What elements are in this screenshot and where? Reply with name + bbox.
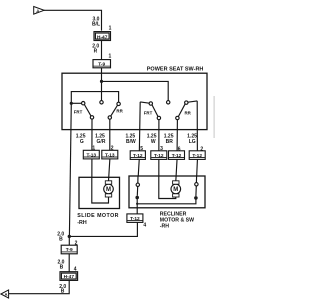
svg-text:FRT: FRT	[74, 109, 83, 114]
svg-text:2: 2	[111, 145, 114, 151]
svg-text:T-12: T-12	[130, 216, 140, 222]
svg-text:R: R	[94, 49, 98, 55]
svg-text:B: B	[60, 264, 64, 270]
svg-text:H-47: H-47	[97, 34, 108, 40]
svg-text:4: 4	[143, 223, 146, 229]
svg-text:1: 1	[109, 26, 112, 32]
svg-text:-RH: -RH	[160, 224, 169, 230]
svg-text:T-13: T-13	[105, 153, 115, 159]
svg-text:SLIDE MOTOR: SLIDE MOTOR	[77, 213, 119, 219]
svg-text:RR: RR	[185, 111, 192, 116]
svg-text:B/L: B/L	[92, 22, 100, 28]
svg-text:2: 2	[75, 241, 78, 247]
svg-text:LG: LG	[189, 139, 196, 145]
svg-text:T-12: T-12	[192, 153, 202, 159]
svg-text:2: 2	[200, 146, 203, 152]
svg-text:5: 5	[140, 146, 143, 152]
svg-text:T-12: T-12	[133, 153, 143, 159]
svg-text:M: M	[173, 187, 178, 193]
svg-text:H-47: H-47	[64, 274, 75, 280]
svg-text:A: A	[4, 292, 7, 297]
svg-text:T-12: T-12	[154, 153, 164, 159]
svg-text:T-12: T-12	[172, 153, 182, 159]
svg-text:FRT: FRT	[144, 110, 153, 115]
svg-text:RR: RR	[116, 109, 123, 114]
svg-text:T-9: T-9	[66, 247, 73, 253]
svg-text:3: 3	[160, 146, 163, 152]
svg-text:G/R: G/R	[97, 139, 106, 145]
svg-text:B/W: B/W	[126, 139, 136, 145]
svg-text:BR: BR	[166, 139, 174, 145]
svg-text:1: 1	[109, 54, 112, 60]
svg-text:T-9: T-9	[98, 61, 105, 67]
svg-text:-RH: -RH	[77, 220, 87, 226]
svg-text:M: M	[106, 187, 111, 193]
svg-text:W: W	[151, 139, 156, 145]
svg-text:6: 6	[178, 146, 181, 152]
svg-text:B: B	[59, 236, 63, 242]
svg-text:T-13: T-13	[86, 153, 96, 159]
svg-text:B: B	[61, 289, 65, 295]
svg-text:4: 4	[74, 267, 77, 273]
svg-text:POWER SEAT SW-RH: POWER SEAT SW-RH	[147, 66, 204, 72]
svg-text:1: 1	[92, 145, 95, 151]
svg-text:G: G	[80, 139, 84, 145]
